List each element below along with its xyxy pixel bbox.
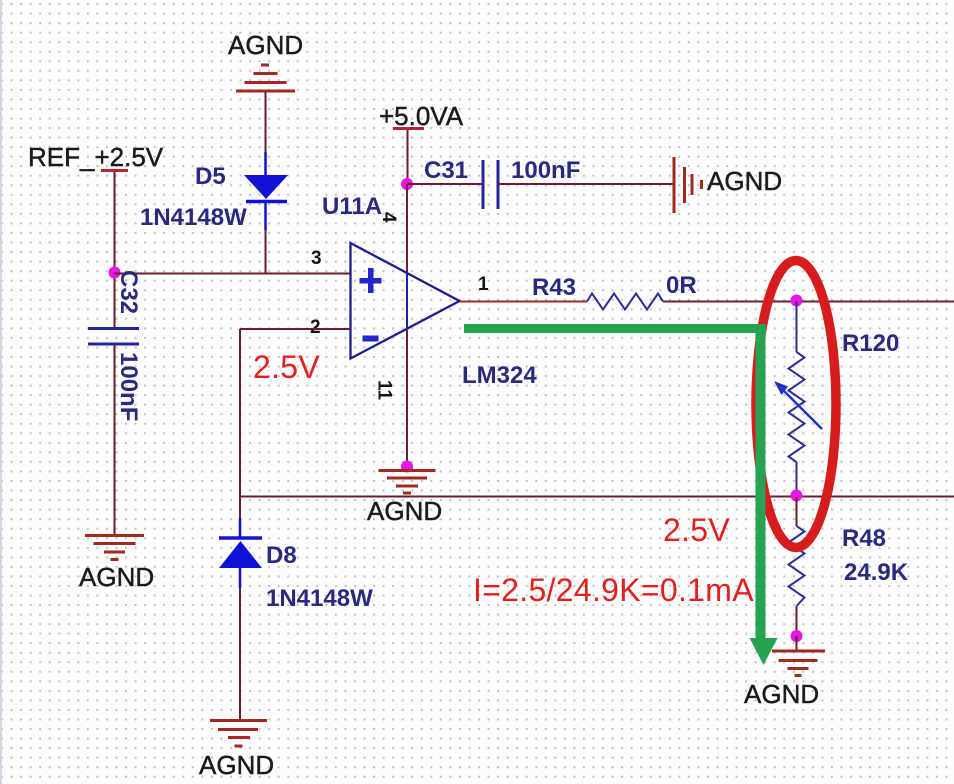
wire down to D8 — [239, 497, 241, 518]
svg-text:1N4148W: 1N4148W — [266, 585, 373, 612]
svg-text:C32: C32 — [115, 270, 142, 314]
svg-text:AGND: AGND — [744, 679, 819, 709]
svg-text:1: 1 — [478, 274, 489, 295]
svg-text:I=2.5/24.9K=0.1mA: I=2.5/24.9K=0.1mA — [473, 572, 754, 608]
svg-text:100nF: 100nF — [511, 157, 580, 184]
diode D5 pin stubs — [264, 152, 267, 175]
wire pin4 from junction — [406, 184, 408, 271]
svg-text:AGND: AGND — [707, 166, 782, 196]
wire C32 to gnd — [114, 345, 116, 534]
diode D5 — [244, 175, 288, 199]
ground AGND left — [85, 536, 144, 560]
wire pin11 down to gnd — [406, 329, 408, 464]
wire REF down — [114, 172, 116, 328]
svg-text:0R: 0R — [666, 272, 697, 299]
capacitor C31 — [482, 160, 485, 209]
svg-text:2.5V: 2.5V — [253, 349, 320, 385]
svg-text:LM324: LM324 — [462, 362, 537, 389]
wire C31 to rotated gnd — [498, 183, 673, 185]
svg-text:D8: D8 — [266, 542, 297, 569]
node pin11 gnd — [401, 461, 413, 473]
svg-text:D5: D5 — [195, 163, 226, 190]
svg-text:R43: R43 — [532, 274, 576, 301]
svg-text:4: 4 — [378, 212, 399, 223]
wire horizontal lower rail — [240, 496, 954, 498]
svg-text:AGND: AGND — [228, 30, 303, 60]
potentiometer R120 — [796, 301, 798, 352]
left window border — [0, 0, 2, 784]
red ellipse highlight — [756, 261, 836, 548]
svg-text:1N4148W: 1N4148W — [140, 204, 247, 231]
wire op-amp minus input — [240, 328, 351, 330]
svg-text:R120: R120 — [842, 330, 899, 357]
wire D8 to gnd — [239, 588, 241, 719]
node R120/R48 junction — [791, 490, 803, 502]
svg-text:AGND: AGND — [367, 496, 442, 526]
wire top gnd to D5 — [265, 92, 267, 152]
ground AGND rotated right of C31 — [674, 157, 702, 213]
green annotation line horizontal — [464, 324, 766, 333]
R120 wiper arrow — [781, 388, 822, 429]
wire op-amp output — [460, 301, 588, 303]
svg-text:AGND: AGND — [199, 750, 274, 780]
svg-text:3: 3 — [311, 248, 322, 269]
node REF junction — [109, 267, 121, 279]
svg-text:U11A: U11A — [322, 193, 382, 220]
wire +5.0VA down — [407, 130, 409, 184]
wire junction to C31 — [407, 183, 483, 185]
node C31 junction — [401, 178, 413, 190]
resistor R48 — [796, 497, 798, 526]
green arrowhead — [750, 638, 778, 665]
capacitor C32 — [88, 327, 139, 330]
ground AGND bottom right — [772, 651, 825, 676]
svg-text:AGND: AGND — [79, 562, 154, 592]
svg-text:24.9K: 24.9K — [844, 559, 909, 586]
svg-text:R48: R48 — [842, 525, 886, 552]
wire node to op-amp + input — [115, 273, 351, 275]
svg-text:2.5V: 2.5V — [663, 512, 730, 548]
wire minus loop vertical — [239, 329, 241, 497]
ground AGND middle — [379, 471, 436, 494]
svg-text:2: 2 — [310, 317, 321, 338]
minus symbol — [363, 336, 379, 342]
resistor R43 — [587, 294, 663, 310]
wire D5 to node — [265, 230, 267, 274]
node R120 top — [791, 295, 803, 307]
op-amp U11A — [351, 243, 460, 359]
svg-text:REF_+2.5V: REF_+2.5V — [28, 142, 164, 172]
wire R48 to gnd — [796, 636, 798, 651]
svg-text:100nF: 100nF — [115, 352, 142, 421]
svg-text:+5.0VA: +5.0VA — [379, 101, 464, 131]
wire R43 to right edge — [663, 301, 954, 303]
diode D8 pin stubs — [239, 518, 242, 538]
svg-text:11: 11 — [374, 380, 395, 401]
node R48 bottom — [791, 630, 803, 642]
ground AGND bottom (D8) — [210, 721, 267, 747]
op-amp power pin line (blue inside triangle) — [406, 271, 408, 329]
diode D8 — [219, 536, 262, 540]
svg-text:C31: C31 — [424, 157, 468, 184]
green annotation line vertical — [756, 324, 766, 640]
ground AGND top (inverted) — [236, 65, 295, 91]
plus symbol — [360, 268, 382, 293]
